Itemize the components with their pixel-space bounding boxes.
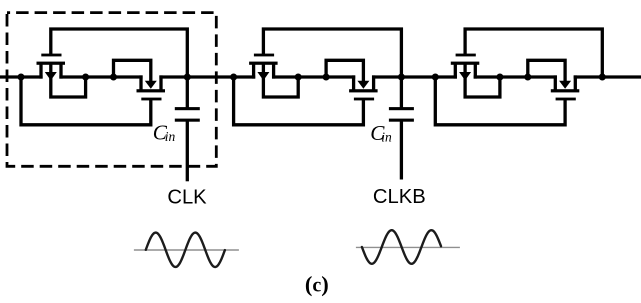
svg-text:in: in: [381, 129, 392, 144]
svg-text:(c): (c): [305, 272, 329, 297]
svg-text:CLK: CLK: [167, 187, 207, 209]
svg-text:in: in: [165, 129, 176, 144]
svg-text:CLKB: CLKB: [373, 186, 426, 208]
